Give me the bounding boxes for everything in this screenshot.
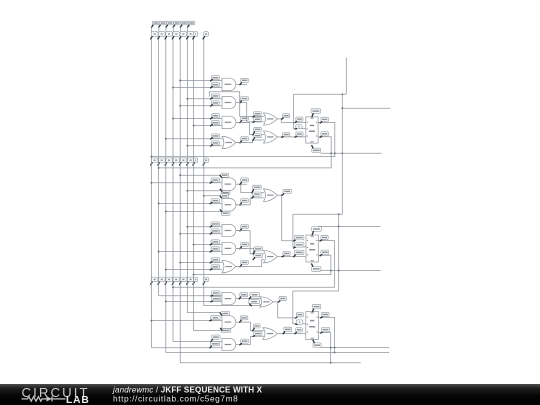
flag pointer for Pin 3 (166, 25, 168, 27)
AND gate U5A (222, 224, 236, 236)
net flag Pin 1 (211, 240, 220, 244)
flag pointer (252, 196, 254, 198)
wire (236, 83, 247, 85)
junction (179, 80, 181, 82)
net flag Pin 3 (296, 312, 303, 316)
flag pointer (296, 317, 298, 318)
wire (236, 204, 247, 206)
net flag Pin 8 (240, 293, 248, 297)
wire (236, 231, 264, 254)
flag pointer (210, 226, 212, 227)
flag pointer X (row 3) (193, 282, 194, 284)
junction (338, 225, 340, 227)
wire (277, 333, 305, 335)
wire (251, 336, 265, 344)
net flag X (row 3) (193, 277, 197, 282)
wire (293, 291, 306, 324)
net flag Q2 (row 2) (166, 158, 173, 163)
flag pointer (295, 121, 297, 122)
net flag Q1 (row 3) (151, 277, 158, 282)
net flag Pin 3 (241, 78, 249, 82)
junction (186, 98, 188, 100)
junction (172, 87, 174, 89)
net flag Q1 (row 1) (151, 32, 158, 37)
junction (158, 251, 160, 253)
wire (236, 102, 247, 104)
flag pointer (321, 332, 323, 333)
flag pointer Q3 (row 2) (180, 163, 181, 165)
wire (187, 145, 222, 147)
flag pointer Q1 (row 1) (158, 37, 159, 39)
net flag Pin 2 (211, 247, 220, 251)
bus wire net Q2 (165, 39, 167, 353)
junction (186, 190, 188, 192)
OR gate U8B (263, 328, 278, 340)
flag pointer (320, 255, 322, 256)
wire (204, 304, 262, 306)
net flag Pin 10c (254, 332, 262, 336)
wire (151, 122, 334, 156)
flag pointer for Pin 1 (152, 25, 154, 27)
flag pointer Q3 (row 1) (180, 37, 181, 39)
net flag Pin 4 (321, 117, 329, 121)
net flag Pin 6 (279, 296, 286, 300)
net flag Pin 8 (283, 189, 292, 193)
junction (193, 125, 195, 127)
net flag Pin 6b (322, 327, 330, 331)
flag pointer (210, 251, 212, 252)
net flag Q3 (row 3) (180, 277, 187, 282)
flag pointer (313, 340, 314, 342)
junction (338, 270, 340, 272)
junction (330, 270, 332, 272)
flag pointer (253, 251, 255, 254)
net flag Q1 (row 1) (158, 32, 165, 37)
flag pointer (210, 319, 212, 322)
net flag X (row 2) (193, 158, 197, 163)
net flag Pin 6 (283, 133, 290, 137)
wire (165, 27, 167, 32)
AND gate U1A (222, 78, 236, 90)
net flag Pin 4 (211, 199, 220, 203)
net flag Pin 8 (241, 116, 249, 120)
net flag Pin 12 (294, 250, 304, 255)
net flag Pin 16 (313, 343, 321, 348)
input pin Pin 1 (152, 21, 159, 25)
wire (187, 98, 222, 100)
flag pointer (240, 229, 242, 231)
net flag Pin 11 (284, 327, 292, 331)
flag pointer (220, 313, 222, 316)
flag pointer X2 (row 3) (203, 282, 204, 284)
net flag Pin 9 (211, 114, 219, 118)
flag pointer (252, 190, 254, 193)
net flag Pin 5 (254, 134, 262, 138)
net flag Pin 2 (211, 83, 219, 87)
input pin Pin 3 (167, 21, 174, 25)
wire (282, 195, 296, 241)
net flag X2 (row 3) (204, 277, 209, 282)
junction (165, 300, 167, 302)
flag pointer for Pin 6 (188, 25, 190, 27)
net flag Pin 15 (312, 304, 320, 309)
AND gate U4B (222, 198, 236, 211)
flag pointer (211, 105, 213, 106)
bus wire net X (193, 39, 195, 331)
flag pointer (220, 210, 222, 212)
junction (179, 233, 181, 235)
flag pointer (211, 118, 213, 119)
junction (172, 286, 174, 288)
net flag Pin 1 (221, 311, 230, 315)
wire (151, 320, 222, 322)
bus wire net Q1 (150, 39, 152, 348)
net flag Pin 2 (211, 316, 221, 320)
bus wire net Q1 (158, 39, 160, 296)
OR gate U2D (222, 136, 236, 148)
net flag Pin 13 (211, 141, 219, 145)
net flag Pin 14 (312, 227, 322, 232)
net flag Q1 (row 3) (158, 277, 165, 282)
flag pointer (220, 328, 222, 330)
flag pointer X2 (row 1) (203, 37, 204, 39)
flag pointer (320, 240, 322, 241)
flag pointer (253, 132, 255, 135)
net flag Pin 12 (253, 185, 262, 189)
net flag Pin 1 (254, 112, 262, 116)
wire (151, 182, 222, 184)
junction (330, 362, 332, 364)
flag pointer (282, 194, 284, 196)
net flag Pin 11 (294, 243, 304, 248)
net flag Pin 6 (241, 199, 249, 203)
flag pointer X (row 1) (193, 37, 194, 39)
net flag Pin 12 (211, 134, 219, 138)
junction (158, 167, 160, 169)
flag pointer (240, 182, 242, 184)
wire (159, 251, 222, 253)
wire (293, 290, 339, 292)
flag pointer (294, 240, 296, 241)
flag pointer (240, 320, 242, 322)
AND gate U1C (222, 116, 236, 128)
flag pointer Q1 (row 3) (151, 282, 152, 284)
wire (247, 103, 264, 122)
wire (273, 302, 296, 318)
flag pointer (312, 264, 313, 266)
wire (166, 317, 335, 352)
net flag Pin 3 (283, 251, 290, 255)
wire (236, 198, 264, 205)
bus wire net Q3 (186, 39, 188, 313)
wire (331, 362, 361, 364)
flag pointer (239, 297, 241, 299)
wire (166, 138, 222, 140)
wire (247, 299, 261, 300)
logo wire with resistor and diode (22, 396, 66, 401)
wire (158, 27, 160, 32)
wire (294, 94, 306, 128)
junction (341, 93, 343, 95)
wire (321, 152, 382, 154)
flag pointer (253, 258, 255, 260)
net flag Pin 5 (221, 211, 230, 215)
flag pointer (211, 125, 213, 126)
wire (151, 347, 222, 349)
net flag Pin 11 (254, 247, 263, 251)
wire (293, 214, 306, 247)
wire (236, 142, 247, 144)
net flag Pin 5 (321, 235, 328, 239)
net flag Pin 7 (321, 250, 329, 254)
input pin Pin 2 (160, 21, 167, 25)
junction (186, 226, 188, 228)
flag pointer (313, 309, 314, 311)
AND gate U1B (222, 96, 236, 108)
flag pointer (210, 233, 212, 234)
flag pointer Q1 (row 3) (158, 282, 159, 284)
net flag Pin 11 (241, 225, 249, 229)
wire (204, 195, 221, 197)
flag pointer Q1 (row 1) (151, 37, 152, 39)
junction (158, 202, 160, 204)
flag pointer (210, 182, 212, 183)
AND gate U4A (222, 178, 236, 191)
junction (150, 182, 152, 184)
junction (253, 253, 255, 255)
flag pointer (210, 346, 212, 348)
flag pointer (320, 122, 322, 123)
flag pointer (253, 121, 255, 122)
svg-text:LAB: LAB (66, 395, 90, 405)
net flag Pin 10 (211, 222, 220, 226)
junction (330, 152, 332, 154)
flag pointer X (row 2) (193, 163, 194, 165)
junction (172, 118, 174, 120)
svg-text:http://circuitlab.com/c5eg7m8: http://circuitlab.com/c5eg7m8 (113, 394, 238, 404)
net flag Pin 2 (211, 178, 220, 182)
wire (159, 202, 222, 204)
junction (165, 269, 167, 271)
wire (236, 259, 264, 266)
wire (338, 214, 340, 291)
OR gate U5C (222, 260, 236, 273)
net flag Pin 9b (249, 300, 260, 304)
junction (179, 174, 181, 176)
net flag Q3 (row 1) (187, 32, 194, 37)
flag pointer Q1 (row 2) (151, 163, 152, 165)
wire (180, 80, 222, 82)
flag pointer Q2 (row 2) (172, 163, 173, 165)
bus wire net X2 (203, 39, 205, 306)
flag pointer (312, 232, 313, 235)
wire (321, 347, 389, 349)
wire (194, 244, 222, 246)
flag pointer (210, 269, 212, 270)
net flag Q3 (row 3) (187, 277, 194, 282)
junction (338, 213, 340, 215)
wire (172, 27, 174, 32)
wire (151, 27, 153, 32)
flag pointer for Pin 2 (159, 25, 161, 27)
junction (203, 195, 205, 197)
wire (236, 183, 247, 185)
wire (187, 226, 222, 228)
wire (187, 312, 220, 314)
wire (180, 333, 331, 363)
junction (179, 262, 181, 264)
wire (166, 269, 222, 271)
net flag Pin 9 (212, 291, 220, 295)
flag pointer Q3 (row 3) (180, 282, 181, 284)
flag pointer (211, 145, 213, 146)
wire (194, 255, 331, 274)
flag pointer for Pin 5 (180, 25, 182, 27)
junction (334, 351, 336, 353)
flag pointer (321, 317, 323, 318)
wire (236, 248, 247, 250)
flag pointer X2 (row 2) (203, 163, 204, 165)
net flag X2 (row 1) (204, 32, 209, 37)
wire (277, 136, 306, 138)
flag pointer (240, 101, 242, 103)
AND gate U7A (222, 293, 236, 305)
wire (187, 190, 221, 192)
wire (251, 322, 265, 331)
junction (330, 347, 332, 349)
flag pointer Q2 (row 1) (172, 37, 173, 39)
net flag Pin 3 (241, 242, 249, 246)
net flag Pin 8 (254, 253, 263, 257)
flag pointer (282, 136, 284, 139)
flag pointer (295, 332, 297, 334)
junction (193, 244, 195, 246)
wire (236, 321, 251, 323)
flag pointer (253, 335, 255, 338)
OR gate U3B (264, 131, 278, 143)
wire (180, 262, 222, 264)
net flag Pin 4 (212, 335, 221, 339)
net flag Pin 5 (211, 265, 220, 269)
wire (236, 140, 264, 143)
wire (179, 27, 181, 32)
JK flip-flop FF2 (306, 235, 318, 262)
wire (209, 92, 264, 117)
AND gate U5B (222, 242, 236, 254)
wire (342, 107, 390, 109)
flag pointer (240, 83, 242, 85)
flag pointer Q3 (row 2) (187, 163, 188, 165)
net flag Q2 (row 1) (166, 32, 173, 37)
wire (321, 270, 381, 272)
flag pointer (240, 121, 242, 123)
flag pointer for Pin 4 (173, 25, 175, 27)
net flag Q3 (row 2) (187, 158, 194, 163)
wire (236, 122, 264, 134)
wire (236, 121, 247, 123)
flag pointer (282, 118, 284, 119)
junction (341, 107, 343, 109)
net flag Pin 2 (296, 132, 303, 136)
flag pointer Q3 (row 1) (187, 37, 188, 39)
input pin Pin 6 (188, 21, 195, 25)
flag pointer (240, 343, 242, 344)
wire (241, 184, 264, 192)
net flag Pin 3 (241, 339, 249, 343)
net flag Pin 4 (211, 94, 219, 98)
JK flip-flop FF1 (306, 117, 318, 143)
net flag C (296, 125, 302, 129)
net flag X (row 1) (193, 32, 197, 37)
wire (159, 295, 222, 297)
net flag Pin 15 (311, 109, 321, 114)
wire (194, 125, 222, 127)
net flag Pin 8b (250, 293, 260, 297)
junction (165, 138, 167, 140)
bus wire net Q3 (179, 39, 181, 363)
wire (277, 119, 306, 123)
net flag Q2 (row 1) (173, 32, 180, 37)
JK flip-flop FF3 (306, 312, 319, 340)
flag pointer (211, 339, 213, 341)
wire (180, 105, 222, 107)
OR gate U6B (264, 250, 278, 263)
net flag Q1 (row 2) (158, 158, 165, 163)
net flag Pin 14 (312, 148, 321, 152)
flag pointer (211, 98, 213, 99)
net flag Pin 11 (241, 137, 249, 141)
flag pointer (211, 80, 213, 81)
net flag C2 (296, 320, 303, 324)
wire (173, 341, 222, 343)
OR gate U6A (264, 189, 278, 202)
wire (277, 256, 306, 258)
net flag Pin 6 (241, 97, 249, 101)
flag pointer (250, 304, 252, 306)
flag pointer (210, 244, 212, 245)
wire (236, 266, 247, 268)
wire (194, 330, 222, 332)
flag pointer (295, 128, 297, 130)
wire (173, 241, 334, 288)
net flag Pin 8 (321, 132, 329, 136)
junction (150, 156, 152, 158)
OR gate U8A (260, 297, 273, 307)
flag pointer Q2 (row 3) (172, 282, 173, 284)
wire (277, 194, 281, 196)
wire (345, 58, 347, 95)
junction (179, 105, 181, 107)
net flag Pin 12 (240, 316, 248, 320)
wire (159, 137, 332, 168)
wire (318, 225, 381, 227)
wire (293, 213, 342, 215)
junction (281, 194, 283, 196)
wire (180, 233, 222, 235)
flag pointer Q2 (row 1) (165, 37, 166, 39)
flag pointer (294, 255, 296, 257)
flag pointer (282, 255, 284, 258)
flag pointer (240, 265, 242, 267)
net flag Pin 16 (312, 267, 321, 272)
flag pointer Q3 (row 3) (187, 282, 188, 284)
flag pointer (240, 203, 242, 205)
flag pointer (253, 328, 255, 331)
flag pointer (283, 332, 285, 334)
net flag Pin 4 (254, 127, 262, 131)
net flag Pin 1 (221, 173, 229, 177)
flag pointer (253, 138, 255, 141)
